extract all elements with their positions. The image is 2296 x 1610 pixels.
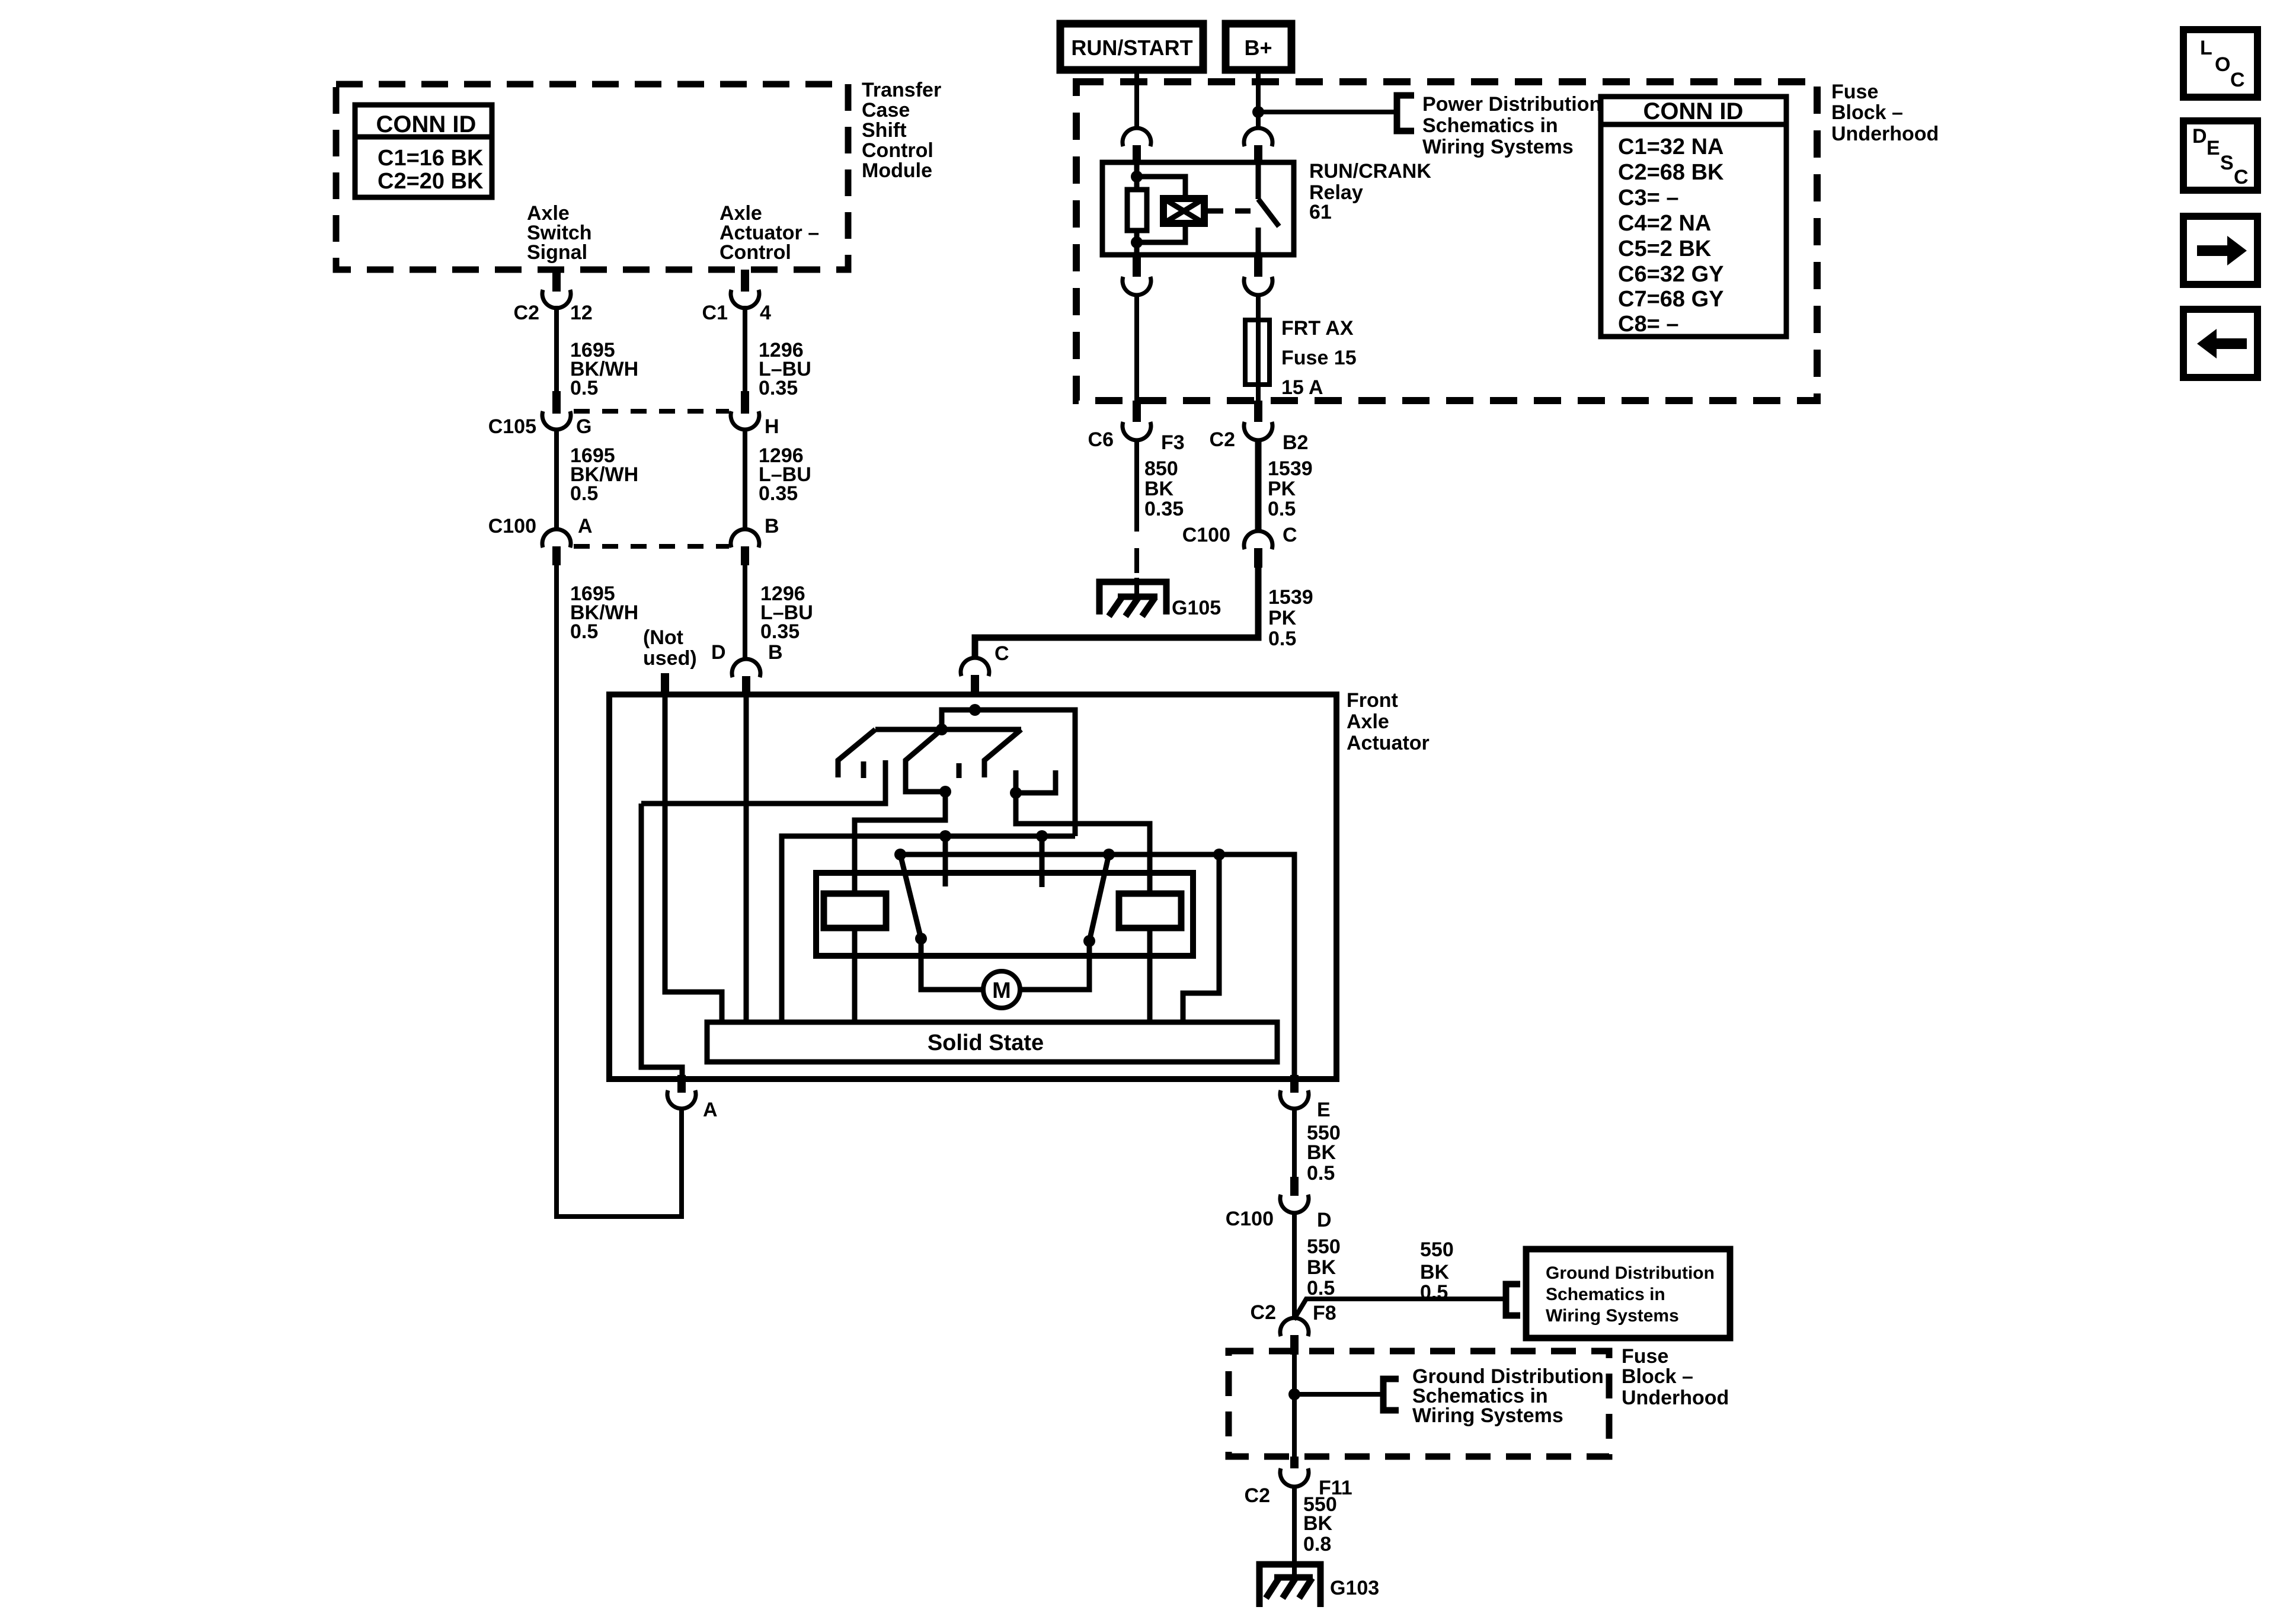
ground G105	[1099, 578, 1166, 616]
svg-text:RUN/START: RUN/START	[1071, 36, 1192, 60]
fuse block underhood lower dashed box	[1229, 1351, 1609, 1457]
wire 550 BK 0.5 E to C100 D	[1292, 1109, 1297, 1177]
connector C100 D	[1226, 1177, 1332, 1231]
svg-text:4: 4	[760, 302, 771, 324]
node solid state drop	[1213, 849, 1225, 860]
svg-text:Fuse: Fuse	[1831, 81, 1878, 103]
fuse block CONN ID table	[1601, 97, 1786, 337]
wire inside lower fuse block	[1292, 1355, 1297, 1457]
svg-text:0.5: 0.5	[570, 620, 598, 643]
relay RUN/CRANK 61 box	[1102, 162, 1294, 255]
label 550 BK 0.5 upper	[1307, 1122, 1341, 1185]
wire pin D not used to solid state	[665, 694, 722, 1022]
svg-text:C6: C6	[1088, 428, 1114, 451]
svg-text:L: L	[2200, 37, 2212, 59]
connector C6 F3	[1088, 401, 1185, 454]
svg-text:Transfer: Transfer	[862, 79, 941, 101]
fuse block underhood dashed box	[1076, 82, 1817, 401]
connector relay bottom left	[1123, 255, 1151, 295]
svg-text:Schematics in: Schematics in	[1422, 114, 1558, 137]
svg-text:C7=68 GY: C7=68 GY	[1618, 287, 1724, 312]
node lower fuse block junction	[1288, 1388, 1300, 1400]
connector relay top left	[1123, 128, 1151, 162]
svg-text:BK: BK	[1420, 1261, 1450, 1283]
svg-text:0.5: 0.5	[1268, 628, 1296, 650]
wire blade right to motor	[1021, 941, 1089, 990]
svg-text:C100: C100	[1226, 1208, 1274, 1230]
svg-text:C5=2 BK: C5=2 BK	[1618, 236, 1712, 261]
connector C2 F8	[1251, 1301, 1336, 1355]
svg-text:0.5: 0.5	[570, 482, 598, 505]
node blade left pivot	[894, 849, 906, 860]
svg-text:E: E	[2207, 137, 2220, 159]
wire to ground distribution callout 2	[1294, 1392, 1381, 1397]
svg-text:B2: B2	[1283, 431, 1308, 454]
svg-text:Schematics in: Schematics in	[1546, 1285, 1665, 1304]
connector actuator B	[732, 641, 783, 696]
switch wiper left roof	[838, 729, 875, 777]
svg-text:PK: PK	[1268, 607, 1297, 629]
Ground Distribution callout box	[1526, 1249, 1730, 1338]
power box B+	[1226, 24, 1291, 70]
node bus upper left contact	[939, 830, 951, 842]
svg-text:D: D	[1317, 1209, 1332, 1231]
wire 1695 BK/WH module to C105	[554, 306, 559, 391]
label 550 BK 0.5 branch	[1420, 1238, 1454, 1304]
svg-text:Axle: Axle	[1347, 710, 1389, 733]
label FRT AX Fuse 15 15 A	[1281, 317, 1357, 399]
svg-text:(Not: (Not	[643, 626, 683, 649]
label 550 BK 0.8	[1303, 1493, 1337, 1555]
svg-text:G105: G105	[1172, 597, 1221, 619]
Transfer Case Shift Control Module dashed box	[336, 84, 848, 270]
wire relay to fuse block exit left	[1134, 296, 1139, 403]
switch wiper right roof	[984, 729, 1021, 777]
wire right coil to solid state	[1147, 928, 1153, 1022]
svg-text:Fuse 15: Fuse 15	[1281, 347, 1357, 369]
connector C105 H	[731, 391, 779, 438]
svg-text:BK: BK	[1307, 1256, 1336, 1279]
bracket power distribution	[1397, 95, 1414, 131]
svg-text:0.5: 0.5	[1307, 1277, 1335, 1299]
node relay coil top	[1131, 171, 1143, 183]
svg-text:Block –: Block –	[1622, 1365, 1693, 1388]
svg-text:1539: 1539	[1268, 457, 1313, 480]
nav icon arrow right	[2183, 216, 2257, 284]
wire 1539 PK 0.5 B2 to C100	[1255, 438, 1262, 530]
connector C2 B2	[1210, 401, 1309, 454]
svg-text:C6=32 GY: C6=32 GY	[1618, 262, 1724, 287]
svg-text:550: 550	[1307, 1235, 1341, 1258]
wire pin B to solid state	[744, 696, 749, 1022]
svg-text:0.35: 0.35	[760, 620, 800, 643]
svg-text:H: H	[765, 415, 779, 438]
label 1539 PK 0.5 upper	[1268, 457, 1313, 520]
wire C junction horizontal	[942, 710, 1075, 836]
svg-text:C105: C105	[488, 415, 536, 438]
wire 1695 BK/WH C105 to C100	[554, 430, 559, 529]
svg-text:Underhood: Underhood	[1622, 1387, 1729, 1409]
svg-text:G103: G103	[1330, 1577, 1379, 1599]
connector C1 pin 4	[702, 270, 771, 324]
wire left coil to solid state	[852, 928, 858, 1022]
svg-text:0.5: 0.5	[570, 377, 598, 399]
wire fixed contact right motor switch	[1040, 836, 1045, 887]
nav icon arrow left	[2183, 309, 2257, 377]
label 850 BK 0.35	[1144, 457, 1184, 520]
relay actuation dashed line	[1208, 209, 1252, 214]
svg-text:550: 550	[1420, 1238, 1454, 1261]
svg-text:C2: C2	[1245, 1484, 1270, 1507]
svg-text:BK: BK	[1307, 1141, 1336, 1164]
svg-text:C: C	[2234, 166, 2249, 188]
svg-text:E: E	[1317, 1099, 1331, 1121]
svg-text:Signal: Signal	[527, 241, 587, 264]
label 1539 PK 0.5 lower	[1268, 586, 1313, 650]
wire 550 BK 0.8 to G103	[1292, 1485, 1297, 1578]
wire to power distribution callout	[1258, 110, 1395, 114]
svg-text:D: D	[711, 641, 726, 664]
nav icon DESC	[2183, 121, 2257, 190]
svg-text:RUN/CRANK: RUN/CRANK	[1309, 160, 1431, 183]
svg-text:Front: Front	[1347, 689, 1398, 712]
contact stub 3	[957, 763, 962, 778]
resistor relay coil	[1127, 190, 1147, 231]
node blade right pivot	[1103, 849, 1115, 860]
svg-text:0.5: 0.5	[1420, 1281, 1448, 1304]
svg-text:C2=68 BK: C2=68 BK	[1618, 160, 1724, 185]
relay coil right	[1119, 894, 1181, 928]
svg-text:F8: F8	[1313, 1302, 1336, 1324]
svg-text:Actuator: Actuator	[1347, 732, 1430, 754]
svg-text:B: B	[768, 641, 783, 664]
connector C2 F11	[1245, 1457, 1352, 1507]
svg-text:C100: C100	[1182, 524, 1230, 546]
svg-text:M: M	[992, 978, 1011, 1003]
svg-text:Module: Module	[862, 159, 932, 182]
node relay coil bottom	[1131, 236, 1143, 248]
svg-text:Wiring Systems: Wiring Systems	[1422, 136, 1574, 158]
dashed link C105	[574, 409, 729, 414]
wire 1296 L-BU module to C105	[743, 306, 747, 391]
svg-text:CONN ID: CONN ID	[1643, 98, 1744, 124]
wire bus upper	[782, 836, 1075, 1022]
connector relay bottom right	[1244, 255, 1272, 295]
svg-text:Solid State: Solid State	[928, 1030, 1044, 1055]
wire relay to FRT AX fuse	[1256, 296, 1261, 401]
connector actuator E	[1280, 1075, 1331, 1121]
svg-text:0.35: 0.35	[759, 482, 798, 505]
wire basket to right relay coil	[1016, 793, 1150, 894]
svg-text:C100: C100	[488, 515, 536, 537]
svg-text:Fuse: Fuse	[1622, 1345, 1668, 1368]
switch blade right	[1089, 854, 1109, 941]
svg-text:C1: C1	[702, 302, 728, 324]
node basket junction	[1010, 787, 1022, 799]
node B+ branch	[1252, 106, 1264, 118]
svg-text:Shift: Shift	[862, 119, 907, 142]
contact stub 2 to A path	[641, 760, 885, 804]
svg-text:C2: C2	[1210, 428, 1235, 451]
label Not used	[643, 626, 697, 670]
label 550 BK 0.5 middle	[1307, 1235, 1341, 1299]
connector C105 G	[488, 391, 592, 438]
svg-text:PK: PK	[1268, 478, 1296, 500]
Solid State box	[707, 1022, 1277, 1062]
svg-text:C3= –: C3= –	[1618, 185, 1678, 210]
svg-text:0.35: 0.35	[759, 377, 798, 399]
svg-text:1539: 1539	[1268, 586, 1313, 609]
label RUN/CRANK Relay 61	[1309, 160, 1431, 223]
module CONN ID table	[355, 105, 492, 197]
label Fuse Block Underhood top	[1831, 81, 1939, 145]
svg-text:C1=32 NA: C1=32 NA	[1618, 135, 1723, 159]
wire middle contact to left relay coil	[855, 792, 945, 894]
dashed link C100	[574, 544, 729, 549]
connector relay top right	[1244, 128, 1272, 162]
svg-text:12: 12	[570, 302, 593, 324]
wire bus lower to E pin	[900, 854, 1294, 1079]
switch wiper middle roof to left coil	[906, 729, 945, 792]
svg-text:Control: Control	[720, 241, 791, 264]
connector C2 pin 12	[514, 270, 593, 324]
wire branch to ground distribution callout	[1294, 1299, 1504, 1320]
svg-text:B: B	[765, 515, 779, 537]
svg-text:A: A	[703, 1099, 718, 1121]
label Axle Switch Signal	[527, 202, 592, 264]
svg-text:C2: C2	[1251, 1301, 1276, 1324]
node bus upper right contact	[1036, 830, 1048, 842]
svg-text:B+: B+	[1244, 36, 1272, 60]
svg-text:used): used)	[643, 647, 697, 670]
pin D not used stub	[661, 673, 669, 694]
relay frame rectangle	[816, 873, 1193, 956]
svg-text:CONN ID: CONN ID	[376, 111, 477, 137]
svg-text:O: O	[2215, 53, 2230, 76]
svg-text:61: 61	[1309, 201, 1332, 223]
bracket ground distribution callout 2	[1383, 1379, 1399, 1410]
svg-text:F3: F3	[1161, 431, 1185, 454]
wire A pin internal leg	[641, 804, 682, 1075]
motor M	[983, 971, 1020, 1008]
node blade left bottom	[915, 933, 927, 945]
svg-text:G: G	[576, 415, 591, 438]
node blade right bottom	[1083, 935, 1095, 947]
svg-text:C4=2 NA: C4=2 NA	[1618, 211, 1711, 236]
svg-text:C: C	[994, 642, 1009, 665]
svg-text:BK: BK	[1144, 478, 1174, 500]
label Power Distribution Schematics in Wiring Systems	[1422, 93, 1601, 158]
contact basket right	[1016, 770, 1056, 793]
svg-text:S: S	[2220, 152, 2234, 174]
connector C100 A	[488, 515, 593, 565]
connector C100 B	[731, 515, 779, 565]
Front Axle Actuator box	[609, 694, 1336, 1079]
wire B+ to relay	[1256, 70, 1261, 129]
relay switch contacts and blade	[1258, 162, 1279, 255]
connector actuator A	[667, 1075, 718, 1121]
wire 550 BK 0.5 C100 to C2 F8	[1292, 1212, 1297, 1317]
svg-text:15 A: 15 A	[1281, 376, 1323, 399]
svg-text:Control: Control	[862, 139, 933, 162]
svg-text:FRT AX: FRT AX	[1281, 317, 1354, 340]
svg-text:C: C	[2230, 69, 2245, 91]
svg-text:0.8: 0.8	[1303, 1533, 1331, 1555]
svg-text:BK: BK	[1303, 1512, 1333, 1535]
relay coil branch wires	[1137, 162, 1185, 255]
connector actuator C	[961, 642, 1009, 696]
svg-text:D: D	[2192, 125, 2207, 148]
wire RUN/START to relay	[1134, 70, 1139, 129]
wire fixed contact left motor switch	[943, 836, 948, 886]
svg-text:Power Distribution: Power Distribution	[1422, 93, 1601, 116]
svg-text:850: 850	[1144, 457, 1178, 480]
ground G103	[1259, 1564, 1320, 1607]
relay winding box with X	[1163, 199, 1204, 223]
node selector pivot	[936, 724, 948, 735]
power box RUN/START	[1060, 24, 1203, 70]
svg-text:Block –: Block –	[1831, 101, 1903, 124]
wire 1296 L-BU C105 to C100	[743, 430, 747, 529]
svg-text:C2: C2	[514, 302, 539, 324]
label Ground Distribution Schematics in Wiring Systems 2	[1412, 1365, 1604, 1427]
svg-text:Ground Distribution: Ground Distribution	[1546, 1263, 1715, 1283]
label Axle Actuator Control	[720, 202, 819, 264]
switch blade left	[900, 854, 921, 939]
wire 1539 PK 0.5 C100 to actuator C	[975, 568, 1258, 658]
wire 1695 BK/WH C100 to actuator A loop	[557, 565, 682, 1217]
svg-text:Wiring Systems: Wiring Systems	[1546, 1306, 1679, 1326]
svg-text:Wiring Systems: Wiring Systems	[1412, 1404, 1563, 1427]
svg-text:C2=20 BK: C2=20 BK	[378, 169, 484, 194]
label Fuse Block Underhood lower	[1622, 1345, 1729, 1409]
svg-text:0.5: 0.5	[1307, 1162, 1335, 1185]
wire solid state drop	[1183, 854, 1219, 1022]
node middle contact	[939, 786, 951, 798]
contact stub 1	[861, 761, 866, 778]
svg-text:A: A	[578, 515, 593, 537]
wire blade left to motor	[921, 939, 983, 990]
svg-text:C1=16 BK: C1=16 BK	[378, 146, 484, 171]
svg-text:Case: Case	[862, 99, 910, 121]
svg-text:0.35: 0.35	[1144, 498, 1184, 520]
svg-text:0.5: 0.5	[1268, 498, 1296, 520]
label Front Axle Actuator	[1347, 689, 1430, 754]
relay coil left	[824, 894, 886, 928]
connector C100 C	[1182, 524, 1297, 568]
wire selector top rail	[875, 727, 1021, 732]
svg-text:C: C	[1283, 524, 1297, 546]
svg-text:C8= –: C8= –	[1618, 312, 1678, 337]
label Transfer Case Shift Control Module	[862, 79, 941, 182]
bracket ground distribution callout	[1506, 1284, 1520, 1315]
svg-text:Underhood: Underhood	[1831, 123, 1939, 145]
fuse FRT AX 15A	[1245, 320, 1269, 385]
wire 850 BK 0.35 to G105	[1134, 438, 1139, 578]
node C entry junction	[969, 704, 981, 716]
nav icon LOC	[2183, 30, 2257, 97]
wire 1296 L-BU C100 to actuator B	[743, 565, 747, 658]
